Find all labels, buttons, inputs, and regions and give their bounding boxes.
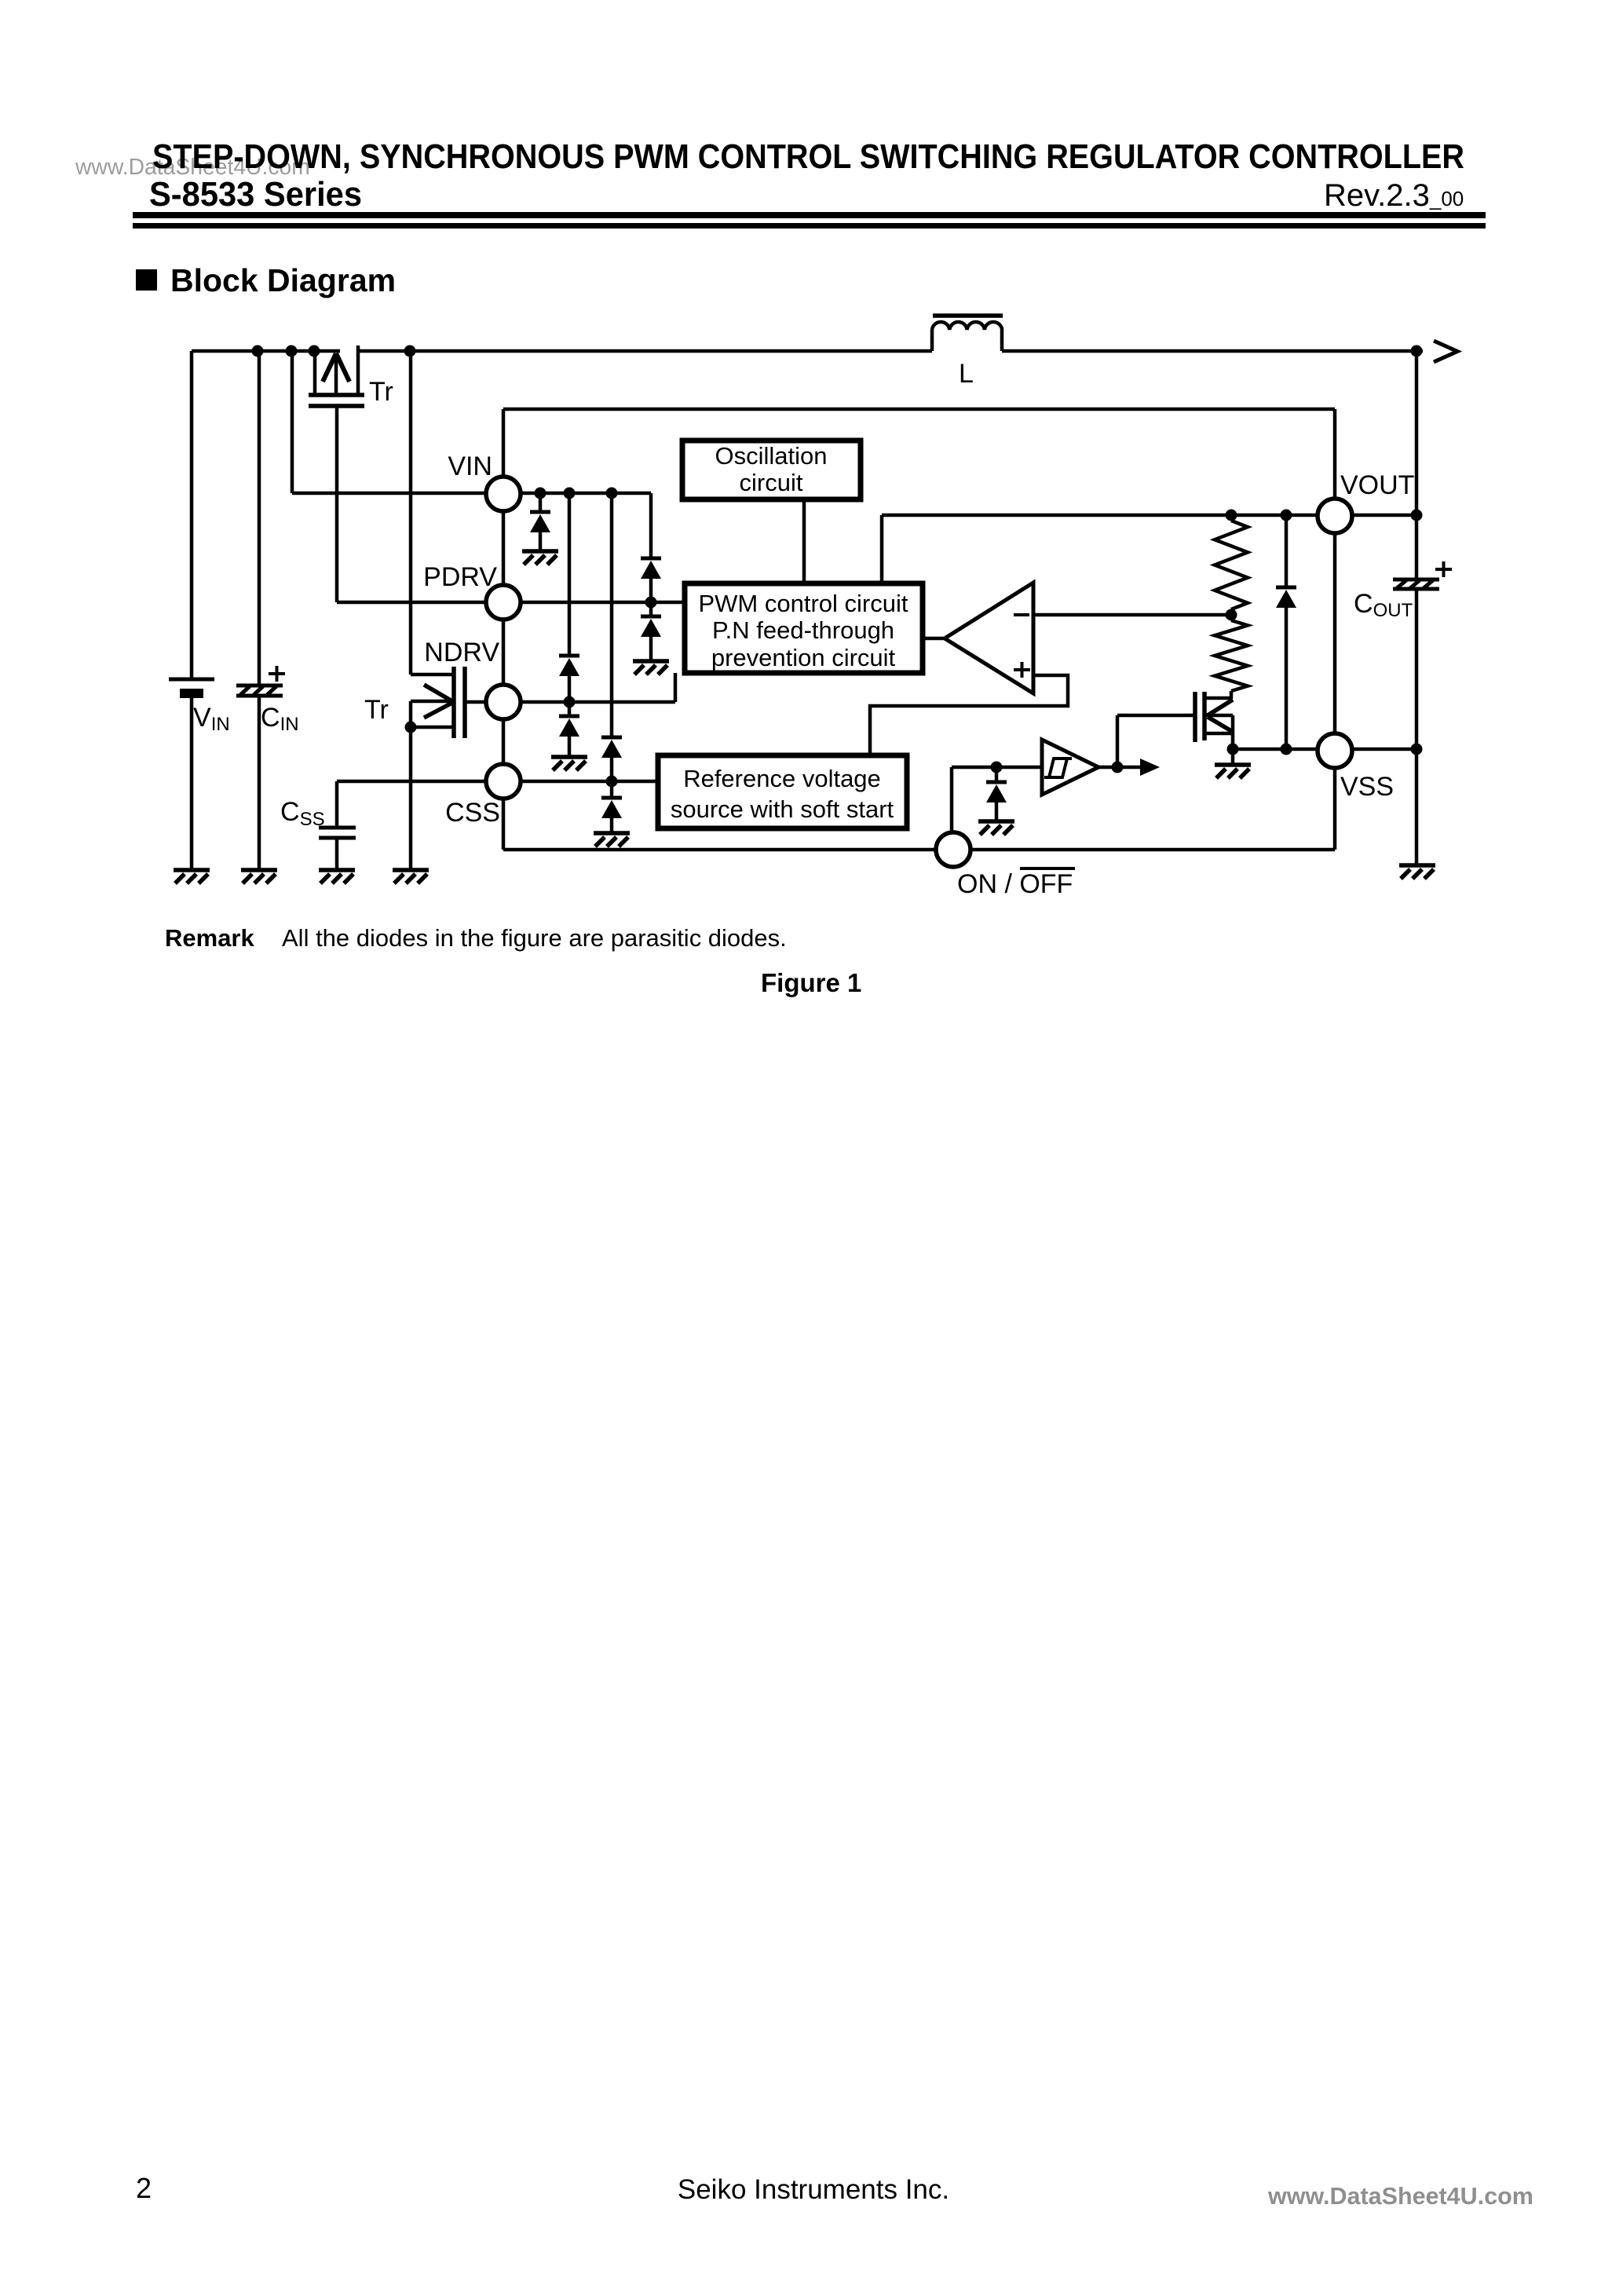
pin CSS [486,764,521,799]
node junction VSS/diode line [1281,744,1292,755]
wire output rail top [1002,349,1423,353]
wire CSS pin to capacitor [335,781,339,826]
wire diode to NDRV wire [568,676,572,702]
label minus input [1014,613,1029,616]
resistor divider lower [1215,620,1248,691]
node junction NDRV/diode line [564,696,576,708]
wire diode line VOUT lower [1285,608,1289,749]
node junction ON-OFF/diode [991,762,1003,773]
node junction feedback/diode line [1281,510,1292,521]
diode parasitic VIN-CSS [601,737,622,758]
ground PDRV diode [633,661,669,675]
label plus input [1014,662,1030,678]
svg-text:Figure 1: Figure 1 [761,968,861,997]
pin PDRV [486,585,521,620]
node junction rail/Tr source [309,345,320,357]
node junction VOUT/output rail [1411,510,1423,521]
node junction PDRV/diode line [645,597,657,609]
diode parasitic VSS-VOUT [1276,587,1296,608]
wire ON/OFF dot to diode [995,767,999,782]
node junction rail/VIN-pin feed [286,345,298,357]
wire divider mid [1230,609,1234,615]
wire VIN dot to diode [539,493,543,512]
wire diode line VIN to NDRV [568,493,572,656]
svg-text:L: L [959,359,974,389]
node junction VIN/NDRV diode line [564,488,576,499]
svg-text:VOUT: VOUT [1340,470,1414,500]
diode parasitic VIN-PDRV [641,558,661,579]
svg-text:NDRV: NDRV [424,638,499,667]
wire CSS to diode [610,781,614,798]
wire ON/OFF to buffer input [952,766,1042,770]
hysteresis symbol [1044,759,1072,777]
transistor Tr (N-channel MOSFET, low side) [411,351,487,870]
overline OFF [1020,867,1075,870]
wire diode to ground [995,803,999,821]
diode parasitic VIN-GND [530,512,550,532]
svg-text:PDRV: PDRV [423,562,497,592]
arrow buffer output [1117,759,1160,776]
pin ON/OFF [936,832,971,867]
wire error amp minus input to FB node [1033,613,1230,617]
wire CIN top [258,351,261,686]
wire diode to PDRV wire [649,579,653,602]
wire diode to ground [568,737,572,757]
ground battery [174,870,210,883]
plus sign COUT [1435,561,1452,577]
svg-text:S-8533 Series: S-8533 Series [149,176,362,214]
wire VIN rail left segment [192,349,340,353]
svg-text:VSS: VSS [1340,772,1394,802]
transistor Tr (P-channel MOSFET, high side) [309,345,364,602]
svg-text:All the diodes in the figure a: All the diodes in the figure are parasit… [282,924,787,952]
wire diode to CSS wire [610,758,614,781]
svg-text:2: 2 [136,2172,152,2204]
IC body outline S-8533 [503,409,1335,850]
node junction rail/Tr drain [404,345,416,357]
node Tr source junction [405,722,417,733]
node junction VSS/output rail [1411,744,1423,755]
wire buffer output [1098,766,1117,770]
wire CSS pin internal [520,780,658,784]
wire divider to NMOS drain [1230,691,1234,698]
svg-text:prevention circuit: prevention circuit [711,644,896,671]
section heading: Block Diagram [136,269,157,291]
wire VIN pin internal [520,492,651,495]
diode parasitic ON-OFF [986,782,1007,803]
wire diode to ground [539,532,543,551]
node junction rail/CIN [252,345,264,357]
ground ON/OFF diode [978,821,1014,835]
svg-text:Seiko Instruments Inc.: Seiko Instruments Inc. [678,2174,949,2205]
wire VIN pin external [292,492,487,495]
ground CSS [319,870,355,883]
op-amp error amplifier [945,583,1033,693]
wire NDRV to PWM box [674,673,678,702]
wire VSS internal [1233,748,1318,751]
block Oscillation circuit [682,441,861,499]
svg-text:VIN: VIN [448,452,492,481]
pin VIN [486,477,521,511]
wire VIN internal drop to diode [649,493,653,558]
node FB junction [1226,609,1237,621]
wire diode line VOUT upper [1285,515,1289,587]
ground internal NMOS [1215,765,1251,778]
svg-text:ON / OFF: ON / OFF [957,869,1073,899]
wire switch node rail [357,349,932,353]
wire error amp plus input to reference [870,675,1068,755]
wire diode to ground [649,637,653,661]
ground NDRV diode [551,757,587,770]
wire feedback into PWM block [880,515,884,583]
wire NDRV to diode [568,702,572,716]
wire PDRV pin external (to Tr gate) [337,601,487,605]
node junction VIN/diode [535,488,546,499]
double rule under header [133,212,1486,218]
svg-text:Tr: Tr [364,695,389,725]
inductor L [932,316,1003,351]
wire PDRV pin internal [520,601,685,605]
node junction CSS/diode line [606,776,618,788]
diode parasitic CSS-GND [601,798,622,818]
pin VOUT [1318,499,1352,533]
node junction feedback/divider [1226,510,1237,521]
svg-text:source with soft start: source with soft start [671,795,894,823]
ground CSS diode [594,833,630,846]
node junction buffer output [1112,762,1124,773]
capacitor CIN (polarized) [236,686,283,870]
svg-text:CSS: CSS [445,798,500,828]
wire VIN feed up to rail [291,351,294,493]
svg-text:P.N feed-through: P.N feed-through [712,616,894,644]
diode parasitic NDRV-GND [559,716,579,737]
capacitor CSS [319,828,356,870]
node NMOS source junction [1227,744,1239,755]
node junction VIN/CSS diode line [606,488,618,499]
svg-text:circuit: circuit [740,469,803,496]
pin VSS [1318,733,1352,768]
pin NDRV [486,685,521,719]
svg-text:www.DataSheet4U.com: www.DataSheet4U.com [1267,2183,1533,2210]
wire battery VIN feed down [190,351,194,678]
wire output rail down (to GND) [1415,589,1419,865]
ground CIN [241,870,277,883]
wire diode to ground [610,818,614,833]
wire VOUT pin to output rail [1352,514,1416,517]
plus sign CIN [269,666,285,682]
node junction output rail [1411,345,1423,357]
svg-text:Tr: Tr [369,377,393,407]
output arrow [1434,341,1457,362]
wire VOUT feedback [882,514,1316,517]
svg-text:Remark: Remark [165,924,254,952]
capacitor COUT (polarized) [1393,579,1439,589]
wire NDRV pin internal [520,700,675,704]
diode parasitic PDRV-GND [641,616,661,637]
svg-text:PWM control circuit: PWM control circuit [699,590,908,617]
wire PWM block to error amp output [923,637,945,641]
battery VIN source [169,679,214,870]
resistor divider upper [1215,521,1248,609]
diode parasitic VIN-NDRV [559,656,579,676]
ground output rail [1399,865,1435,879]
wire CSS pin external [337,780,487,784]
wire output rail down (VOUT) [1415,351,1419,579]
wire oscillation to PWM block [802,499,806,583]
wire diode line VIN to CSS [610,493,614,737]
block PWM control circuit [685,583,923,673]
transistor internal N-channel MOSFET (FB disable) [1195,692,1233,765]
ground Tr source [393,870,429,883]
svg-text:Reference voltage: Reference voltage [683,765,881,792]
wire buffer output up to gate [1116,715,1120,767]
wire PDRV to diode [649,602,653,616]
block Reference voltage source [658,755,907,828]
ground VIN diode [522,551,558,565]
wire VSS pin to output rail [1351,748,1416,751]
svg-text:Block Diagram: Block Diagram [170,262,396,298]
buffer with hysteresis (ON/OFF input) [1042,740,1098,795]
wire gate of internal NMOS [1117,714,1193,718]
svg-text:STEP-DOWN, SYNCHRONOUS PWM CON: STEP-DOWN, SYNCHRONOUS PWM CONTROL SWITC… [152,138,1464,176]
wire ON/OFF pin up [950,767,954,833]
svg-text:Oscillation: Oscillation [715,442,828,470]
